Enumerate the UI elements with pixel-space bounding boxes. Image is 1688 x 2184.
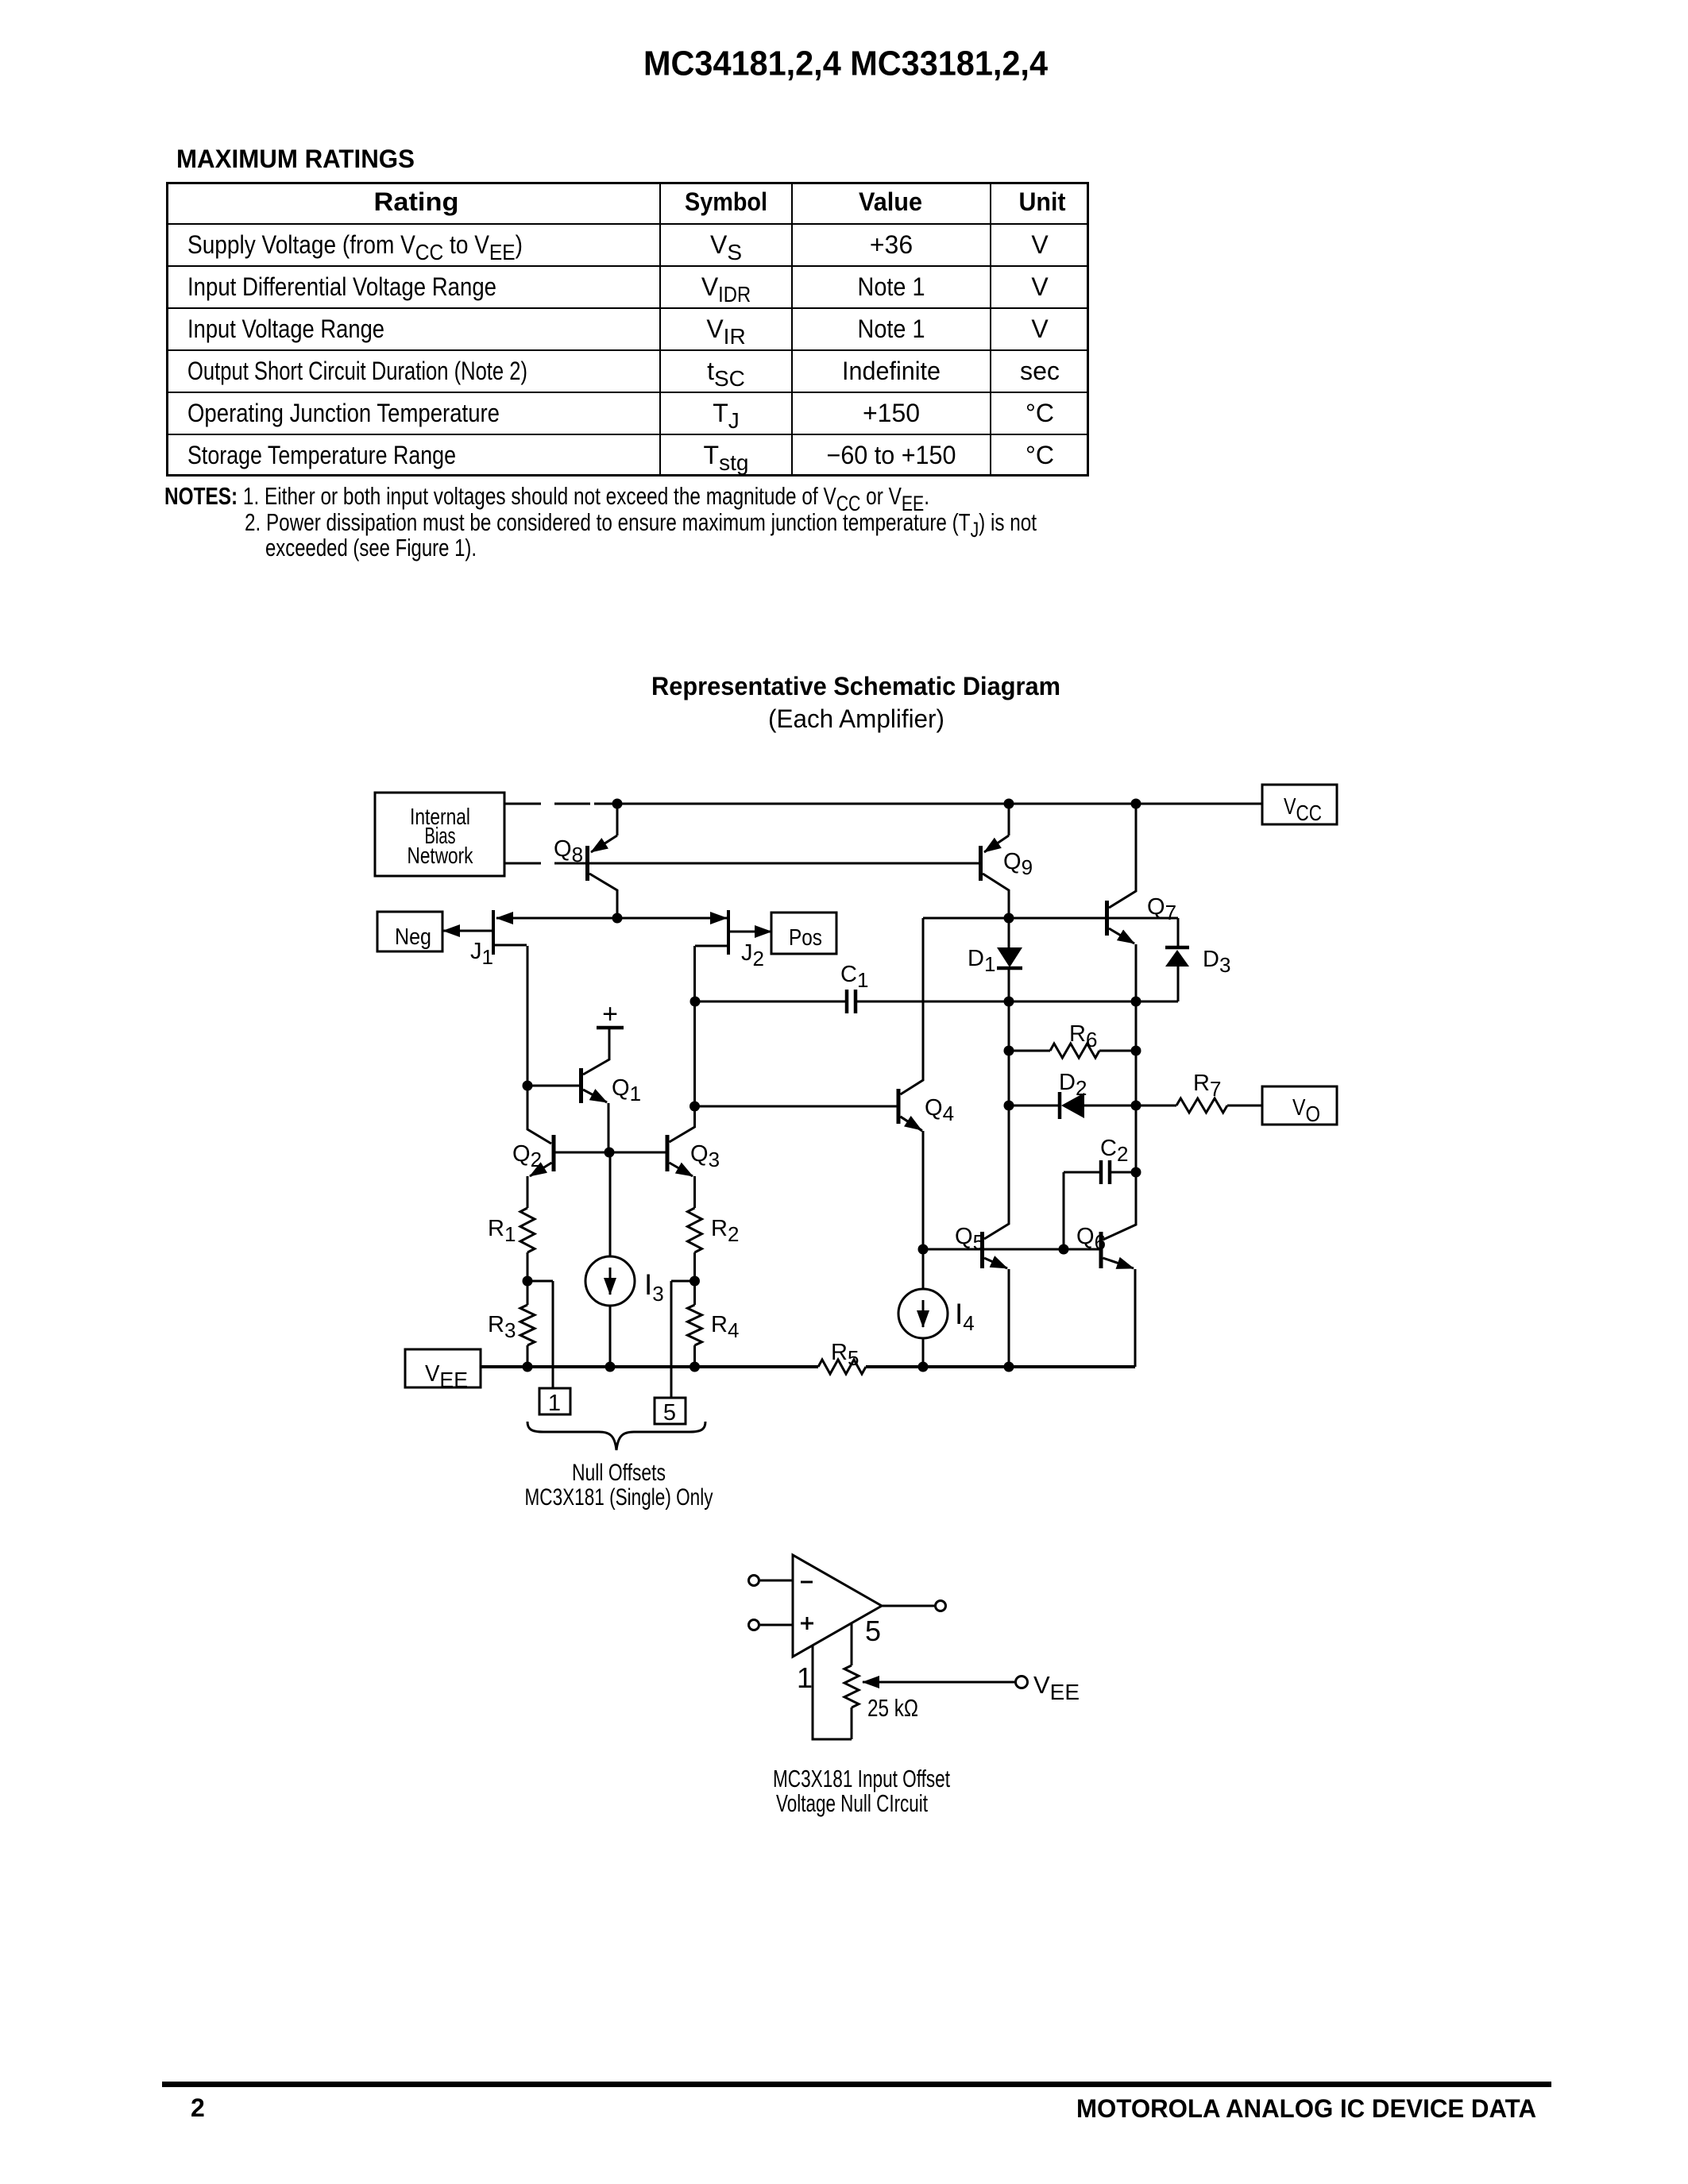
svg-text:Symbol: Symbol [685, 187, 767, 216]
svg-text:Unit: Unit [1019, 187, 1066, 216]
svg-text:+36: +36 [870, 230, 913, 259]
svg-text:Note 1: Note 1 [858, 314, 925, 343]
svg-text:Network: Network [408, 843, 473, 869]
svg-text:Rating: Rating [374, 187, 459, 216]
svg-text:MC3X181 Input Offset: MC3X181 Input Offset [773, 1765, 950, 1792]
svg-text:Pos: Pos [789, 925, 822, 951]
svg-text:°C: °C [1026, 399, 1054, 427]
svg-text:5: 5 [865, 1615, 881, 1647]
svg-text:Value: Value [859, 187, 922, 216]
svg-text:1: 1 [548, 1391, 561, 1416]
svg-text:5: 5 [663, 1400, 676, 1426]
svg-text:Neg: Neg [395, 924, 431, 950]
svg-text:Input Voltage Range: Input Voltage Range [187, 314, 384, 343]
svg-text:2: 2 [191, 2093, 205, 2122]
svg-text:MC3X181 (Single) Only: MC3X181 (Single) Only [525, 1484, 713, 1511]
svg-text:25 kΩ: 25 kΩ [867, 1694, 918, 1722]
svg-text:Output Short Circuit Duration: Output Short Circuit Duration (Note 2) [187, 357, 527, 385]
svg-text:−60 to +150: −60 to +150 [827, 441, 956, 469]
svg-text:Representative Schematic Diagr: Representative Schematic Diagram [651, 672, 1060, 700]
svg-text:°C: °C [1026, 441, 1054, 469]
svg-text:Operating Junction Temperature: Operating Junction Temperature [187, 399, 500, 427]
svg-text:(Each Amplifier): (Each Amplifier) [768, 704, 944, 733]
svg-text:1: 1 [797, 1661, 813, 1694]
svg-text:Null Offsets: Null Offsets [572, 1460, 666, 1486]
svg-text:MOTOROLA ANALOG IC DEVICE DATA: MOTOROLA ANALOG IC DEVICE DATA [1076, 2094, 1536, 2123]
svg-text:exceeded (see Figure 1).: exceeded (see Figure 1). [265, 534, 477, 561]
svg-text:V: V [1031, 230, 1049, 259]
svg-text:Storage Temperature Range: Storage Temperature Range [187, 441, 456, 469]
svg-text:V: V [1031, 314, 1049, 343]
svg-text:Input Differential Voltage Ran: Input Differential Voltage Range [187, 272, 496, 301]
svg-text:Voltage Null CIrcuit: Voltage Null CIrcuit [776, 1789, 928, 1817]
svg-text:sec: sec [1020, 357, 1060, 385]
svg-text:+150: +150 [863, 399, 920, 427]
svg-text:MC34181,2,4 MC33181,2,4: MC34181,2,4 MC33181,2,4 [643, 45, 1048, 83]
svg-text:V: V [1031, 272, 1049, 301]
svg-text:MAXIMUM RATINGS: MAXIMUM RATINGS [176, 145, 415, 173]
svg-text:+: + [602, 999, 618, 1029]
svg-text:Indefinite: Indefinite [842, 357, 941, 385]
svg-text:Note 1: Note 1 [858, 272, 925, 301]
